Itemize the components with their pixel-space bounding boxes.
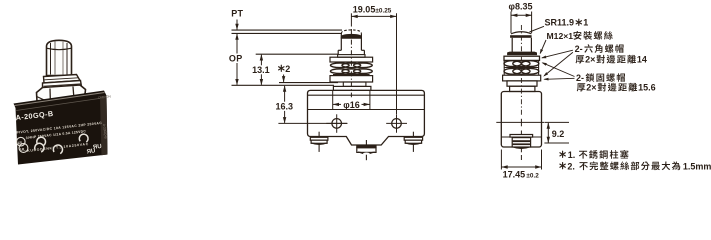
svg-text:±0.2: ±0.2	[526, 172, 539, 179]
svg-text:13.1: 13.1	[252, 65, 270, 75]
svg-text:1.5mm: 1.5mm	[683, 161, 711, 171]
svg-text:2×: 2×	[585, 55, 595, 65]
svg-text:1.: 1.	[568, 150, 576, 160]
svg-text:2.: 2.	[567, 161, 575, 171]
svg-text:9.2: 9.2	[552, 129, 565, 139]
svg-text:1: 1	[583, 17, 588, 27]
svg-text:2-: 2-	[575, 44, 583, 54]
svg-text:φ16: φ16	[343, 100, 359, 110]
svg-text:SR11.9: SR11.9	[545, 17, 575, 27]
svg-text:±0.25: ±0.25	[375, 7, 391, 14]
svg-text:M12×1: M12×1	[547, 31, 574, 41]
svg-text:19.05: 19.05	[353, 5, 376, 15]
svg-text:OP: OP	[229, 54, 243, 64]
svg-text:2: 2	[285, 64, 290, 74]
svg-text:15.6: 15.6	[638, 83, 656, 93]
svg-text:2-: 2-	[576, 73, 584, 83]
svg-text:14: 14	[637, 55, 647, 65]
svg-text:φ8.35: φ8.35	[509, 1, 533, 11]
svg-text:UL: UL	[20, 146, 26, 151]
svg-text:16.3: 16.3	[276, 102, 294, 112]
svg-text:PT: PT	[231, 9, 243, 19]
svg-text:17.45: 17.45	[503, 170, 526, 180]
svg-text:2×: 2×	[586, 83, 596, 93]
svg-text:ЯU: ЯU	[86, 148, 95, 155]
